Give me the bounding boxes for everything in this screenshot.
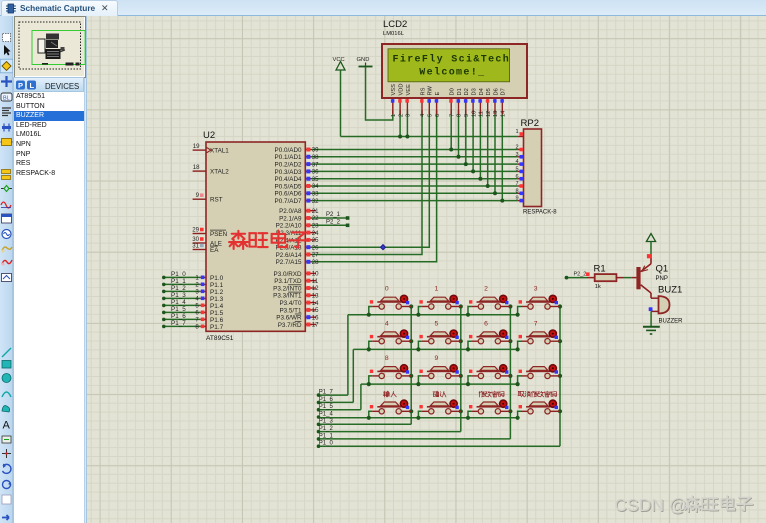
lcd pin 7 D0 (449, 88, 455, 117)
svg-text:RST: RST (210, 197, 223, 204)
BUZZER label (659, 319, 684, 325)
wire VCC rail to RP2 pin 1 (341, 136, 518, 138)
svg-text:2: 2 (484, 286, 488, 293)
node P1_2 keypad (317, 426, 334, 433)
Q1 labels (656, 264, 669, 283)
svg-text:P1.5: P1.5 (210, 310, 224, 317)
pin 8 P1.7 (195, 324, 223, 331)
node P2_2 (326, 219, 341, 225)
node marker on P2.5 wire (381, 245, 386, 250)
button 2 (469, 295, 510, 309)
label shuru (383, 391, 396, 397)
svg-text:D6: D6 (493, 88, 499, 95)
svg-text:9: 9 (196, 192, 200, 199)
wire P0.1 to RP2 pin 3 (312, 156, 518, 158)
svg-text:FireFly Sci&Tech: FireFly Sci&Tech (393, 54, 511, 66)
svg-text:P1.1: P1.1 (210, 282, 224, 289)
svg-text:10: 10 (471, 111, 477, 117)
pin 17 P3.7/RD (278, 321, 320, 329)
button 4 (370, 330, 411, 344)
wire P0.0 to RP2 pin 2 (312, 149, 518, 151)
lcd LCD2 label (383, 19, 407, 37)
svg-text:6: 6 (195, 310, 199, 317)
lcd pin 5 RW (427, 85, 433, 117)
wire LCD D4 column (478, 110, 482, 181)
wire button r1c1 to row bus (416, 341, 422, 351)
wire LCD D7 column (500, 110, 504, 203)
svg-text:P2_1: P2_1 (326, 212, 341, 218)
node P1_5 keypad (317, 404, 334, 411)
node P1_3 keypad (317, 419, 334, 426)
svg-text:P0.2/AD2: P0.2/AD2 (275, 162, 302, 169)
button 0 (370, 295, 411, 309)
svg-text:5: 5 (428, 114, 434, 117)
svg-text:3: 3 (515, 152, 518, 158)
svg-text:31: 31 (192, 243, 199, 250)
svg-text:16: 16 (312, 314, 319, 321)
svg-text:P1_1: P1_1 (319, 433, 334, 439)
svg-text:9: 9 (464, 114, 470, 117)
wire LCD D1 column (457, 110, 461, 159)
button 8 (370, 365, 411, 379)
svg-text:P0.6/AD6: P0.6/AD6 (275, 191, 302, 198)
wire LCD VDD to rail (398, 110, 402, 139)
svg-text:AT89C51: AT89C51 (206, 335, 234, 342)
label 3 (534, 286, 538, 293)
wire LCD D2 column (464, 110, 468, 166)
svg-text:P2.1/A9: P2.1/A9 (279, 215, 302, 222)
buzzer BUZ1 label (658, 285, 682, 296)
wire BUZ1 to ground (650, 311, 652, 326)
svg-text:33: 33 (312, 191, 319, 198)
svg-text:P1.2: P1.2 (210, 289, 224, 296)
pin 21 P2.0/A8 (279, 208, 319, 215)
pin 38 P0.1/AD1 (275, 154, 320, 161)
label 4 (385, 320, 389, 327)
svg-text:7: 7 (195, 317, 199, 324)
svg-text:P1_5: P1_5 (171, 306, 186, 313)
svg-text:14: 14 (501, 111, 507, 117)
label 5 (435, 320, 439, 327)
RP2 pin 5 (515, 167, 523, 174)
svg-text:LCD2: LCD2 (383, 19, 407, 30)
svg-text:R1: R1 (594, 264, 606, 275)
lcd screen (388, 49, 510, 82)
svg-text:13: 13 (493, 111, 499, 117)
pin 6 P1.5 (195, 310, 223, 317)
svg-text:21: 21 (312, 208, 319, 215)
svg-text:P1.3: P1.3 (210, 296, 224, 303)
button row2 col2 (469, 365, 510, 379)
watermark senwang (229, 231, 308, 249)
pin 10 P3.0/RXD (274, 271, 320, 278)
lcd LCD2 body (382, 44, 527, 98)
svg-text:1: 1 (391, 114, 397, 117)
svg-text:26: 26 (312, 244, 319, 251)
svg-text:P3.3/INT1: P3.3/INT1 (273, 293, 302, 300)
wire button r1c0 to row bus (367, 341, 373, 351)
lcd pin 8 D1 (457, 88, 463, 117)
svg-text:P1.4: P1.4 (210, 303, 224, 310)
junction r1c3 (558, 339, 562, 343)
wire column 1 to P1_2 (319, 431, 461, 433)
svg-text:22: 22 (312, 215, 319, 222)
wire LCD D3 column (471, 110, 475, 173)
svg-text:6: 6 (515, 174, 518, 180)
pin 1 P1.0 (195, 275, 223, 282)
lcd pin 13 D6 (493, 88, 499, 117)
svg-text:27: 27 (312, 252, 319, 259)
svg-text:P1_6: P1_6 (319, 397, 334, 403)
svg-text:P2.2/A10: P2.2/A10 (276, 223, 302, 230)
pin 35 P0.4/AD4 (275, 176, 320, 183)
lcd pin 11 D4 (478, 88, 484, 117)
junction r3c1 (459, 409, 463, 413)
wire column 2 to P1_1 (319, 438, 511, 440)
lcd pin 3 VEE (405, 84, 411, 117)
wire button r1c3 to row bus (516, 341, 522, 351)
svg-text:8: 8 (457, 114, 463, 117)
svg-text:1: 1 (195, 275, 199, 282)
button 5 (419, 330, 460, 344)
pin 33 P0.6/AD6 (275, 191, 320, 198)
respack RP2 body (524, 129, 542, 207)
transistor Q1 (636, 258, 651, 298)
junction r3c0 (409, 409, 413, 413)
svg-text:29: 29 (192, 227, 199, 234)
wire net P2_2 to R1 (565, 276, 587, 280)
pin 26 P2.5/A13 (276, 244, 320, 251)
pin 13 P3.3/INT1 (273, 292, 319, 300)
button 6 (469, 330, 510, 344)
RP2 pin 1 (515, 129, 523, 136)
svg-text:P0.7/AD7: P0.7/AD7 (275, 198, 302, 205)
node P1_1 label (171, 278, 186, 285)
svg-text:CSDN @: CSDN @ (615, 495, 687, 515)
pin 4 P1.3 (195, 296, 223, 303)
svg-text:39: 39 (312, 147, 319, 154)
svg-text:36: 36 (312, 169, 319, 176)
svg-text:E: E (435, 92, 441, 96)
svg-text:VEE: VEE (406, 84, 412, 96)
svg-text:10: 10 (312, 271, 319, 278)
wire LCD D0 column (449, 110, 453, 152)
svg-text:5: 5 (515, 167, 518, 173)
wire P2.1 stub (312, 216, 349, 220)
svg-text:D7: D7 (501, 88, 507, 95)
junction r2c1 (459, 374, 463, 378)
label quxiaoxiugaimima (518, 391, 557, 397)
svg-text:EA: EA (210, 247, 219, 254)
pin 31 EA (192, 243, 219, 254)
RP2 pin 4 (515, 159, 523, 166)
svg-text:RESPACK-8: RESPACK-8 (523, 210, 557, 216)
pin 3 P1.2 (195, 289, 223, 296)
junction r1c0 (409, 339, 413, 343)
svg-text:XTAL2: XTAL2 (210, 169, 229, 176)
node P1_7 label (171, 320, 186, 327)
svg-text:15: 15 (312, 307, 319, 314)
svg-text:P1.7: P1.7 (210, 324, 224, 331)
svg-text:11: 11 (312, 278, 319, 285)
lcd pin 10 D3 (471, 88, 477, 117)
wire button r3c1 to row bus (416, 411, 422, 420)
wire P1_2 to U2 (162, 290, 200, 294)
svg-text:P1.6: P1.6 (210, 317, 224, 324)
pin 30 ALE (192, 236, 222, 247)
svg-text:D1: D1 (457, 88, 463, 95)
wire button r2c0 to row bus (367, 376, 373, 386)
pin 19 XTAL1 (193, 143, 230, 154)
lcd pin 2 VDD (398, 83, 404, 117)
pin 34 P0.5/AD5 (275, 183, 320, 190)
svg-text:8: 8 (195, 324, 199, 331)
ground at BUZ1 (643, 327, 660, 334)
svg-text:P1_2: P1_2 (171, 285, 186, 292)
svg-text:P1_5: P1_5 (319, 404, 334, 410)
wire button r2c1 to row bus (416, 376, 422, 386)
wire button r0c3 to row bus (516, 307, 522, 317)
svg-text:DEVICES: DEVICES (45, 82, 79, 91)
junction r3c3 (558, 409, 562, 413)
svg-text:4: 4 (385, 320, 389, 327)
svg-text:P1_1: P1_1 (171, 278, 186, 285)
svg-text:P1_2: P1_2 (319, 426, 334, 432)
label 1 (435, 286, 439, 293)
svg-text:7: 7 (534, 320, 538, 327)
wire keypad row bus 3 (319, 417, 518, 419)
wire keypad column 0 (410, 307, 412, 425)
wire button r2c3 to row bus (516, 376, 522, 386)
pin 14 P3.4/T0 (279, 300, 319, 307)
label 6 (484, 320, 488, 327)
label 7 (534, 320, 538, 327)
svg-text:P1_4: P1_4 (171, 299, 186, 306)
button xiugaimima (469, 400, 510, 414)
junction r0c3 (558, 304, 562, 308)
junction r1c1 (459, 339, 463, 343)
wire keypad column 1 (460, 307, 462, 432)
node P1_0 label (171, 271, 186, 278)
svg-text:6: 6 (484, 320, 488, 327)
svg-text:5: 5 (435, 320, 439, 327)
junction r3c2 (508, 409, 512, 413)
pin 27 P2.6/A14 (276, 252, 320, 259)
svg-text:35: 35 (312, 176, 319, 183)
svg-text:L: L (30, 81, 35, 90)
power VCC at Q1 (646, 234, 655, 259)
svg-text:P1_0: P1_0 (319, 441, 334, 447)
junction r2c3 (558, 374, 562, 378)
node P1_3 label (171, 292, 186, 299)
wire P0.7 to RP2 pin 9 (312, 200, 518, 202)
node P1_4 label (171, 299, 186, 306)
ground GND (357, 57, 373, 67)
svg-text:P3.2/INT0: P3.2/INT0 (273, 285, 302, 292)
wire P2.2 stub (312, 224, 349, 228)
wire P1_4 to U2 (162, 304, 200, 308)
pin 9 RST (193, 192, 223, 203)
svg-text:1k: 1k (595, 284, 601, 290)
wire keypad row bus 0 (348, 314, 518, 316)
svg-text:U2: U2 (203, 130, 215, 141)
svg-text:D2: D2 (464, 88, 470, 95)
lcd pin 4 RS (420, 87, 426, 117)
lcd text line 1 (393, 54, 511, 66)
svg-text:VDD: VDD (399, 83, 405, 95)
svg-text:D0: D0 (450, 88, 456, 95)
svg-text:14: 14 (312, 300, 319, 307)
svg-text:12: 12 (486, 111, 492, 117)
wire P0.5 to RP2 pin 7 (312, 185, 518, 187)
svg-text:P3.7/RD: P3.7/RD (278, 322, 302, 329)
lcd pin 9 D2 (464, 88, 470, 117)
node P2_1 (326, 212, 341, 218)
lcd pin 12 D5 (486, 88, 492, 117)
wire Q1 collector to BUZ1 (651, 297, 659, 299)
node P1_6 keypad (317, 397, 334, 404)
node P1_6 label (171, 313, 186, 320)
pin 7 P1.6 (195, 317, 223, 324)
wire P1_5 riser (319, 384, 361, 410)
wire button r3c0 to row bus (367, 411, 373, 420)
svg-text:12: 12 (312, 285, 319, 292)
svg-text:32: 32 (312, 198, 319, 205)
svg-text:4: 4 (195, 296, 199, 303)
power VCC (333, 57, 346, 137)
svg-text:11: 11 (479, 111, 485, 117)
pin 15 P3.5/T1 (279, 307, 319, 314)
svg-text:3: 3 (534, 286, 538, 293)
svg-text:PNP: PNP (656, 276, 668, 282)
pin 2 P1.1 (195, 282, 223, 289)
wire P2.7 to LCD E (312, 110, 437, 262)
pin 39 P0.0/AD0 (275, 147, 320, 154)
svg-text:3: 3 (406, 114, 412, 117)
svg-text:0: 0 (385, 286, 389, 293)
wire keypad column 2 (509, 307, 511, 439)
svg-text:P2.0/A8: P2.0/A8 (279, 208, 302, 215)
wire LCD VEE to rail (405, 110, 409, 139)
wire button r2c2 to row bus (466, 376, 472, 386)
svg-text:19: 19 (193, 143, 200, 150)
svg-text:8: 8 (385, 355, 389, 362)
wire keypad row bus 2 (361, 383, 518, 385)
resistor R1 (587, 264, 616, 291)
node P2_2 at R1 (574, 272, 590, 278)
RP2 part label (523, 210, 557, 216)
svg-text:37: 37 (312, 161, 319, 168)
button row2 col3 (519, 365, 560, 379)
label 2 (484, 286, 488, 293)
pin 18 XTAL2 (193, 164, 230, 175)
RP2 pin 9 (515, 196, 523, 203)
svg-text:P2.7/A15: P2.7/A15 (276, 259, 302, 266)
svg-text:24: 24 (312, 230, 319, 237)
junction r0c2 (508, 304, 512, 308)
svg-text:13: 13 (312, 293, 319, 300)
wire button r0c1 to row bus (416, 307, 422, 317)
svg-text:P2_2: P2_2 (574, 272, 587, 278)
svg-text:P3.5/T1: P3.5/T1 (279, 307, 302, 314)
button 3 (519, 295, 560, 309)
wire P0.6 to RP2 pin 8 (312, 192, 518, 194)
svg-text:D3: D3 (472, 88, 478, 95)
svg-text:1: 1 (435, 286, 439, 293)
wire P1_6 riser (319, 349, 354, 402)
svg-text:P0.0/AD0: P0.0/AD0 (275, 147, 302, 154)
node P1_7 keypad (317, 390, 334, 397)
svg-text:P0.4/AD4: P0.4/AD4 (275, 176, 302, 183)
svg-text:PSEN: PSEN (210, 231, 228, 238)
svg-text:P1_3: P1_3 (171, 292, 186, 299)
respack RP2 label (521, 118, 539, 129)
wire button r3c3 to row bus (516, 411, 522, 420)
lcd pin 1 VSS (391, 84, 397, 117)
svg-text:P1_3: P1_3 (319, 419, 334, 425)
junction r2c2 (508, 374, 512, 378)
lcd text line 2 (419, 67, 485, 79)
wire R1 to Q1 base (616, 277, 636, 279)
pin 36 P0.3/AD3 (275, 169, 320, 176)
pin 16 P3.6/WR (276, 314, 319, 322)
RP2 pin 2 (515, 145, 523, 152)
svg-text:2: 2 (515, 145, 518, 151)
wire button r3c2 to row bus (466, 411, 472, 420)
label queren (433, 391, 446, 397)
svg-text:3: 3 (195, 289, 199, 296)
wire GND to LCD VSS (366, 67, 393, 120)
U2 part number label (206, 335, 234, 342)
svg-text:D5: D5 (486, 88, 492, 95)
svg-text:P0.3/AD3: P0.3/AD3 (275, 169, 302, 176)
svg-text:P3.1/TXD: P3.1/TXD (274, 278, 302, 285)
svg-text:P: P (18, 81, 23, 90)
wire LCD D6 column (493, 110, 497, 195)
svg-text:7: 7 (449, 114, 455, 117)
svg-text:VSS: VSS (391, 84, 397, 96)
junction r2c0 (409, 374, 413, 378)
button shuru (370, 400, 411, 414)
button 9 (419, 365, 460, 379)
wire column 0 to P1_3 (319, 423, 412, 425)
node P1_1 keypad (317, 433, 334, 440)
svg-text:P1_7: P1_7 (171, 320, 186, 327)
svg-text:9: 9 (515, 196, 518, 202)
label 8 (385, 355, 389, 362)
svg-text:1: 1 (515, 129, 518, 135)
svg-text:P2.6/A14: P2.6/A14 (276, 252, 302, 259)
svg-text:BUZZER: BUZZER (659, 319, 684, 325)
svg-text:6: 6 (435, 114, 441, 117)
svg-text:25: 25 (312, 237, 319, 244)
label xiugaimima (479, 391, 504, 397)
svg-text:2: 2 (398, 114, 404, 117)
wire P0.2 to RP2 pin 4 (312, 163, 518, 165)
svg-text:38: 38 (312, 154, 319, 161)
svg-text:P3.0/RXD: P3.0/RXD (274, 271, 302, 278)
node P1_0 keypad (317, 441, 334, 448)
svg-text:P1_7: P1_7 (319, 390, 334, 396)
svg-text:P1_4: P1_4 (319, 411, 334, 417)
wire button r0c0 to row bus (367, 307, 373, 317)
pin 28 P2.7/A15 (276, 259, 320, 266)
buzzer BUZ1 (649, 296, 670, 313)
svg-text:P0.5/AD5: P0.5/AD5 (275, 183, 302, 190)
node P1_4 keypad (317, 411, 334, 418)
svg-text:8: 8 (515, 188, 518, 194)
node P1_5 label (171, 306, 186, 313)
